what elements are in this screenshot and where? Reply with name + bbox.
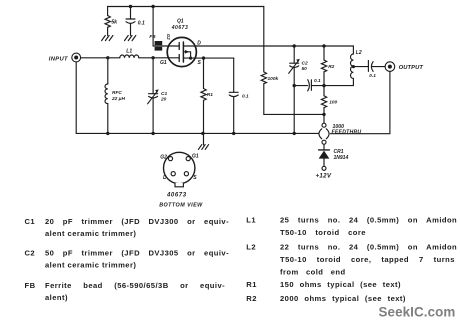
wire ground bus	[76, 132, 319, 134]
svg-text:20: 20	[160, 96, 167, 102]
svg-text:INPUT: INPUT	[49, 56, 68, 62]
svg-text:2000 ohms typical (see text): 2000 ohms typical (see text)	[280, 294, 406, 303]
svg-text:C1: C1	[161, 91, 167, 97]
node R1/bus	[201, 132, 204, 135]
svg-text:0.1: 0.1	[369, 73, 376, 79]
inductor RFC 22uH	[105, 58, 126, 134]
node R2/100/L2 junction	[322, 84, 325, 87]
svg-text:100: 100	[329, 100, 337, 106]
capacitor 0.1 (bias bypass)	[126, 7, 145, 36]
svg-text:L1: L1	[126, 49, 132, 55]
node 0.1/bus	[232, 132, 235, 135]
svg-text:BOTTOM VIEW: BOTTOM VIEW	[159, 202, 203, 208]
svg-text:22 μH: 22 μH	[111, 96, 126, 102]
node +12V terminal	[322, 166, 326, 170]
svg-text:C1: C1	[25, 217, 36, 226]
output connector J2	[385, 62, 423, 72]
svg-text:RFC: RFC	[112, 90, 122, 96]
svg-text:OUTPUT: OUTPUT	[399, 65, 424, 71]
ground (below 0.1)	[125, 36, 136, 41]
transistor pinout 40673 bottom view	[159, 152, 203, 208]
svg-text:1N914: 1N914	[334, 155, 349, 161]
svg-text:0.1: 0.1	[138, 20, 145, 26]
svg-text:C2: C2	[302, 61, 308, 67]
svg-text:alent ceramic trimmer): alent ceramic trimmer)	[45, 261, 136, 270]
svg-text:50 pF trimmer (JFD DVJ305 or e: 50 pF trimmer (JFD DVJ305 or equiv-	[45, 249, 229, 258]
svg-text:L1: L1	[246, 216, 256, 225]
resistor R1	[201, 58, 213, 133]
wire drain rail	[196, 45, 353, 47]
input connector J1	[49, 53, 81, 62]
resistor 100 (decoupling)	[321, 86, 337, 115]
capacitor C1 trimmer 20pF	[148, 58, 168, 134]
svg-text:D: D	[163, 175, 167, 181]
svg-text:SeekIC.com: SeekIC.com	[379, 305, 456, 320]
svg-text:150 ohms typical (see text): 150 ohms typical (see text)	[280, 280, 401, 289]
svg-text:FB: FB	[25, 281, 36, 290]
svg-text:D: D	[197, 40, 201, 46]
resistor 5k	[105, 7, 118, 36]
svg-text:alent): alent)	[45, 293, 68, 302]
svg-text:from cold end: from cold end	[280, 268, 346, 277]
node D/R2 junction	[322, 44, 325, 47]
svg-text:5k: 5k	[111, 19, 118, 25]
svg-text:40673: 40673	[166, 192, 187, 198]
svg-text:R1: R1	[246, 280, 257, 289]
svg-text:Q1: Q1	[177, 18, 184, 24]
svg-text:G1: G1	[160, 60, 167, 66]
svg-text:G2: G2	[160, 154, 167, 160]
svg-text:20 pF trimmer (JFD DVJ300 or e: 20 pF trimmer (JFD DVJ300 or equiv-	[45, 217, 229, 226]
wire G2 feed from rail	[153, 7, 179, 47]
svg-text:22 turns no. 24 (0.5mm) on Ami: 22 turns no. 24 (0.5mm) on Amidon	[280, 242, 457, 251]
capacitor C2 trimmer 50pF	[289, 46, 308, 133]
svg-text:0.1: 0.1	[242, 94, 249, 100]
node S/R1 junction	[202, 56, 205, 59]
wire input to G1	[81, 57, 180, 59]
svg-text:G1: G1	[192, 154, 199, 160]
diode CR1 1N914	[319, 144, 349, 166]
ground (below 5k)	[102, 36, 113, 41]
capacitor 0.1 (supply bypass)	[294, 78, 324, 91]
node L2 tap	[352, 65, 355, 68]
svg-text:L2: L2	[246, 242, 256, 251]
svg-text:alent ceramic trimmer): alent ceramic trimmer)	[45, 229, 136, 238]
svg-text:R1: R1	[207, 92, 213, 98]
svg-text:CR1: CR1	[334, 149, 344, 155]
node top rail / FB wire junction	[151, 5, 154, 8]
svg-text:T50-10 toroid core, tapped 7 t: T50-10 toroid core, tapped 7 turns	[280, 255, 455, 264]
svg-text:R2: R2	[328, 64, 334, 70]
svg-text:FEEDTHRU: FEEDTHRU	[332, 130, 362, 136]
capacitor 0.1 (output coupling)	[353, 60, 385, 79]
svg-text:25 turns no. 24 (0.5mm) on Ami: 25 turns no. 24 (0.5mm) on Amidon	[280, 216, 457, 225]
capacitor 0.1 (source bypass)	[229, 58, 249, 133]
ferrite bead FB	[149, 34, 162, 51]
node RFC/bus	[106, 132, 109, 135]
svg-text:FB: FB	[149, 34, 156, 39]
node C1/bus	[151, 132, 154, 135]
svg-text:T50-10 toroid core: T50-10 toroid core	[280, 228, 366, 237]
legend text	[25, 216, 458, 304]
wire S line	[196, 57, 233, 59]
svg-text:Ferrite bead (56-590/65/3B or: Ferrite bead (56-590/65/3B or equiv-	[45, 281, 225, 290]
node C2/0.1 junction	[293, 84, 296, 87]
wire top bias rail	[108, 6, 264, 8]
resistor 100k (bias feed)	[261, 7, 324, 115]
svg-text:L2: L2	[356, 50, 362, 56]
node +12V supply junction	[322, 113, 325, 116]
resistor R2	[321, 46, 334, 86]
wire output shield to chassis	[330, 71, 390, 133]
wire input connector to ground bus	[75, 62, 77, 133]
ground (chassis on bus)	[198, 133, 208, 149]
svg-text:R2: R2	[246, 294, 257, 303]
node G1/C1 junction	[151, 56, 154, 59]
transistor Q1 40673	[160, 18, 202, 66]
svg-text:100k: 100k	[268, 76, 279, 82]
svg-text:G2: G2	[166, 34, 171, 40]
node D/C2 junction	[293, 44, 296, 47]
svg-text:0.1: 0.1	[314, 78, 321, 84]
svg-text:C2: C2	[25, 249, 36, 258]
node top rail / 0.1 junction	[129, 5, 132, 8]
inductor L2	[324, 46, 362, 86]
svg-text:+12V: +12V	[316, 172, 332, 179]
node C2/bus	[293, 132, 296, 135]
node input/RFC junction	[106, 56, 109, 59]
capacitor 1000pF feedthru	[319, 114, 361, 144]
svg-text:50: 50	[302, 66, 308, 72]
svg-text:40673: 40673	[171, 25, 189, 31]
inductor L1	[120, 49, 139, 58]
